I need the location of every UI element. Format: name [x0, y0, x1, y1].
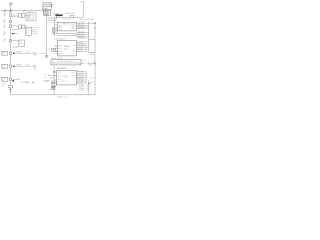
svg-text:RTU: RTU: [26, 28, 29, 30]
svg-text:4012 CLS: 4012 CLS: [78, 24, 85, 26]
svg-text:Q06: Q06: [2, 83, 5, 85]
svg-text:4011 TRIP: 4011 TRIP: [78, 22, 85, 24]
svg-text:IB 02: IB 02: [58, 27, 62, 29]
svg-text:4018 86B: 4018 86B: [78, 37, 84, 39]
tap T4: [3, 32, 17, 36]
wire incoming feeder: [2, 10, 44, 12]
busbar MV (dark): [55, 14, 62, 16]
svg-text:kWh: kWh: [28, 16, 31, 18]
svg-text:cable: cable: [26, 64, 30, 66]
switch S1 ticks: [4, 10, 6, 12]
relay box U1: [58, 22, 77, 31]
transformer label box TR1: [42, 3, 53, 10]
earth switch E1: [2, 85, 12, 91]
branch B6: [2, 50, 47, 56]
svg-text:REF615: REF615: [64, 46, 70, 48]
svg-text:QE: QE: [2, 85, 4, 87]
wire busbar drop: [55, 16, 57, 18]
breaker F1: [9, 14, 18, 17]
wire collector line: [56, 17, 83, 19]
wire grid riser: [82, 2, 84, 18]
fuse pair FP1: [18, 14, 27, 18]
node feeder-bus junction: [10, 10, 12, 12]
svg-text:YNd11: YNd11: [43, 8, 48, 10]
relay box U3: [57, 71, 77, 85]
svg-text:811 IRIG: 811 IRIG: [77, 42, 84, 44]
svg-text:+DC1: +DC1: [90, 54, 94, 56]
svg-text:x1: x1: [36, 29, 38, 31]
branch B7: [2, 63, 36, 69]
svg-text:x2: x2: [36, 31, 38, 33]
svg-text:U3 05: U3 05: [57, 79, 61, 81]
svg-text:OUT1: OUT1: [71, 24, 75, 26]
svg-text:7219 PE: 7219 PE: [78, 86, 84, 88]
svg-text:815 DC-: 815 DC-: [77, 49, 83, 51]
svg-text:aux1: aux1: [43, 74, 46, 76]
svg-text:6513 VC: 6513 VC: [77, 75, 84, 77]
node bus top box: [9, 3, 12, 5]
svg-text:cable: cable: [26, 51, 30, 53]
svg-text:IC 03: IC 03: [58, 29, 62, 31]
U3 left stubs + drop: [48, 65, 56, 95]
svg-text:uk12%: uk12%: [44, 14, 49, 16]
control box M: [25, 27, 40, 37]
svg-text:6512 VB: 6512 VB: [77, 73, 83, 75]
svg-text:6514 VN: 6514 VN: [77, 77, 83, 79]
svg-text:+PE: +PE: [90, 78, 93, 80]
svg-text:24VDC DISTR.: 24VDC DISTR.: [51, 58, 63, 60]
svg-text:PQM-2: PQM-2: [63, 76, 68, 78]
svg-text:812 ETH: 812 ETH: [77, 44, 83, 46]
pins of box M: [32, 28, 37, 34]
svg-text:P1: P1: [73, 45, 75, 47]
svg-text:4014 SPR: 4014 SPR: [78, 28, 86, 30]
svg-text:4016 52B: 4016 52B: [78, 33, 84, 35]
svg-text:400: 400: [3, 34, 6, 36]
capacitor C1: [51, 86, 55, 89]
svg-text:6517 IC1: 6517 IC1: [77, 83, 83, 85]
svg-text:L+ 2.5: L+ 2.5: [82, 59, 86, 61]
svg-text:CTRL: CTRL: [64, 49, 68, 51]
wire CT to relay stubs: [52, 22, 57, 28]
svg-text:630: 630: [3, 26, 6, 28]
svg-text:7220 SH: 7220 SH: [78, 88, 84, 90]
breaker F2: [3, 20, 12, 24]
future dashes: [49, 21, 59, 23]
svg-text:WTG: WTG: [2, 65, 5, 67]
node junction busbar drop: [56, 17, 57, 18]
svg-text:4017 86T: 4017 86T: [78, 35, 84, 37]
switch S2 tick: [24, 10, 25, 12]
svg-text:X120: X120: [58, 48, 62, 50]
svg-text:63/80 MVA: 63/80 MVA: [43, 5, 53, 8]
relay box U2: [58, 40, 77, 56]
feeder A end symbol: [45, 55, 48, 57]
svg-text:+24V: +24V: [88, 65, 92, 67]
svg-text:X130: X130: [58, 51, 62, 53]
terminal box W1 (wide): [51, 60, 81, 65]
label cap bank: [21, 80, 53, 86]
svg-text:250: 250: [3, 41, 6, 43]
riser wire R1: [89, 22, 95, 53]
svg-text:aux2: aux2: [44, 77, 47, 79]
svg-text:1250: 1250: [3, 15, 6, 17]
wire drop to box T: [29, 11, 31, 13]
CT instrument box 1: [52, 27, 56, 30]
svg-text:X110: X110: [58, 45, 62, 47]
U2 right pin rows: [76, 42, 88, 52]
svg-text:1 2 3 4 5 6 7 8 9 10 11 12: 1 2 3 4 5 6 7 8 9 10 11 12: [57, 61, 73, 63]
svg-text:M 2.5: M 2.5: [82, 63, 86, 65]
riser wire R2: [94, 23, 96, 95]
tap T5b: [12, 46, 17, 48]
U3 right pin rows: [76, 72, 86, 83]
breaker F3: [9, 25, 18, 29]
fuse pair FP3: [18, 25, 27, 29]
wire bottom return: [11, 94, 96, 96]
transformer T1: [44, 10, 51, 16]
terminal strip U1b: [58, 34, 77, 36]
svg-text:X1: X1: [52, 61, 54, 63]
pin rows right of U1: [76, 23, 88, 38]
station box T: [26, 12, 36, 21]
svg-text:X140: X140: [58, 54, 62, 56]
svg-text:E-101 rev C: E-101 rev C: [58, 97, 68, 99]
svg-text:METERING: METERING: [57, 68, 67, 70]
svg-text:813 RS485: 813 RS485: [77, 45, 85, 47]
wire feeder B: [54, 18, 56, 36]
svg-text:814 DC+: 814 DC+: [77, 47, 83, 49]
svg-text:816 PE: 816 PE: [77, 51, 82, 53]
wire feeder A: [46, 15, 48, 56]
svg-text:7218 N1: 7218 N1: [78, 84, 84, 86]
U2 left pin stubs: [55, 46, 58, 54]
svg-text:P2: P2: [73, 50, 75, 52]
svg-text:=T01+MCC10: =T01+MCC10: [54, 38, 65, 40]
meter cluster M1: [48, 48, 56, 51]
branch B8: [2, 77, 19, 85]
node dots top right: [94, 22, 95, 23]
W1 riser connect: [88, 62, 95, 64]
svg-text:SEL-751: SEL-751: [63, 23, 70, 25]
svg-text:OUT2: OUT2: [71, 26, 75, 28]
svg-text:WTG: WTG: [2, 78, 5, 80]
svg-text:NKT 630: NKT 630: [64, 19, 70, 21]
svg-text:7221 GN: 7221 GN: [78, 90, 84, 92]
svg-text:630: 630: [3, 22, 6, 24]
svg-text:2xXLPE 36: 2xXLPE 36: [47, 20, 56, 22]
svg-text:U1 03: U1 03: [57, 72, 61, 74]
CT instrument box 2: [52, 31, 56, 34]
breaker F5: [9, 39, 18, 41]
wire left bus: [10, 4, 12, 95]
svg-text:x3: x3: [36, 33, 38, 35]
PT symbols on line: [70, 15, 75, 17]
net rows below U3: [86, 85, 89, 90]
svg-text:SS: SS: [19, 41, 21, 43]
svg-text:U2 04: U2 04: [57, 75, 61, 77]
node grid tick: [81, 1, 83, 3]
switch box SW3: [52, 81, 56, 85]
node feeder start tick: [1, 10, 3, 12]
svg-text:6516 IB1: 6516 IB1: [77, 81, 83, 83]
svg-text:M1: M1: [28, 17, 30, 19]
node dot R3: [88, 83, 89, 84]
riser wire R3: [88, 80, 90, 95]
svg-text:WTG: WTG: [2, 52, 5, 54]
aux box L5: [19, 40, 25, 46]
